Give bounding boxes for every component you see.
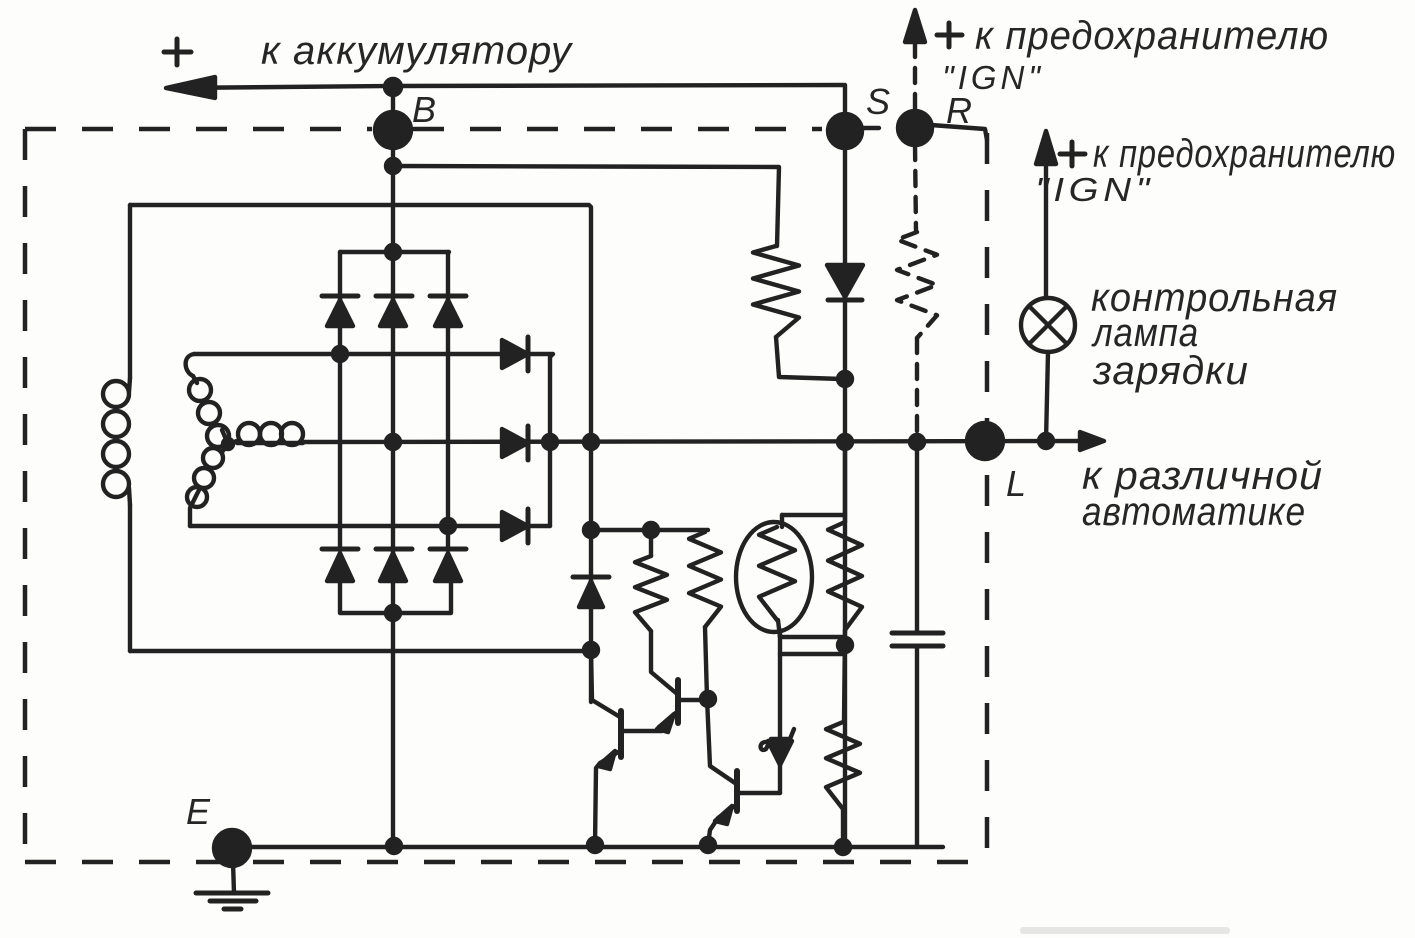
svg-text:к предохранителю: к предохранителю <box>975 14 1329 58</box>
svg-text:S: S <box>866 81 890 122</box>
svg-text:B: B <box>412 89 436 130</box>
svg-text:L: L <box>1006 463 1026 504</box>
svg-text:зарядки: зарядки <box>1092 349 1249 393</box>
svg-text:E: E <box>186 791 211 832</box>
svg-text:к аккумулятору: к аккумулятору <box>261 29 574 73</box>
svg-text:автоматике: автоматике <box>1082 490 1306 534</box>
svg-text:"IGN": "IGN" <box>1035 171 1154 208</box>
svg-text:"IGN": "IGN" <box>942 59 1044 96</box>
svg-text:к предохранителю: к предохранителю <box>1093 132 1396 176</box>
svg-text:R: R <box>946 90 972 131</box>
